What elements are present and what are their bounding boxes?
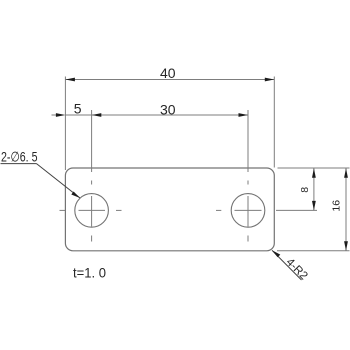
dimension 5-30 line [52,114,249,116]
dimension 30 arrow left [92,113,102,117]
dimension 8 line [313,168,315,210]
svg-text:16: 16 [331,200,343,212]
leader 4-R2 text [284,256,310,282]
dimension 5 text [74,100,82,116]
dimension 40 extension line left [64,77,66,171]
centerline right hole vertical [247,110,249,242]
dimension 40 text [160,65,176,81]
svg-text:30: 30 [160,102,176,118]
svg-text:4-R2: 4-R2 [284,256,310,282]
extension line top right [278,167,350,169]
svg-text:8: 8 [299,187,311,193]
hole left [75,194,109,228]
leader 2-dia6.5 line [1,164,81,198]
dimension 40 arrow left [65,78,75,82]
plate outline [65,168,274,251]
dimension 40 arrow right [265,78,275,82]
centerline left hole horizontal [60,209,122,211]
centerline right hole horizontal [216,209,317,211]
dimension 5 arrow outside-left [56,113,66,117]
leader 4-R2 line [272,250,302,280]
svg-text:t=1. 0: t=1. 0 [73,265,106,281]
extension line bottom right [277,250,350,252]
dimension 8 arrow top [312,168,316,178]
hole right [231,194,265,228]
centerline left hole vertical [91,110,93,242]
dimension 16 arrow bottom [344,241,348,251]
dimension 16 line [345,168,347,251]
dimension 8 arrow bottom [312,201,316,211]
dimension 30 text [160,102,176,118]
dimension 40 extension line right [273,77,275,168]
svg-text:2-∅6. 5: 2-∅6. 5 [1,148,38,164]
svg-text:5: 5 [74,100,82,116]
dimension 16 text [331,200,343,212]
leader 2-dia6.5 arrow [71,192,80,199]
leader 4-R2 arrow [272,250,280,257]
dimension 16 arrow top [344,168,348,178]
leader 2-dia6.5 text [1,148,38,164]
dimension 40 line [65,79,274,81]
dimension 8 text [299,187,311,193]
note t=1.0 [73,265,106,281]
svg-text:40: 40 [160,65,176,81]
dimension 30 arrow right [239,113,249,117]
